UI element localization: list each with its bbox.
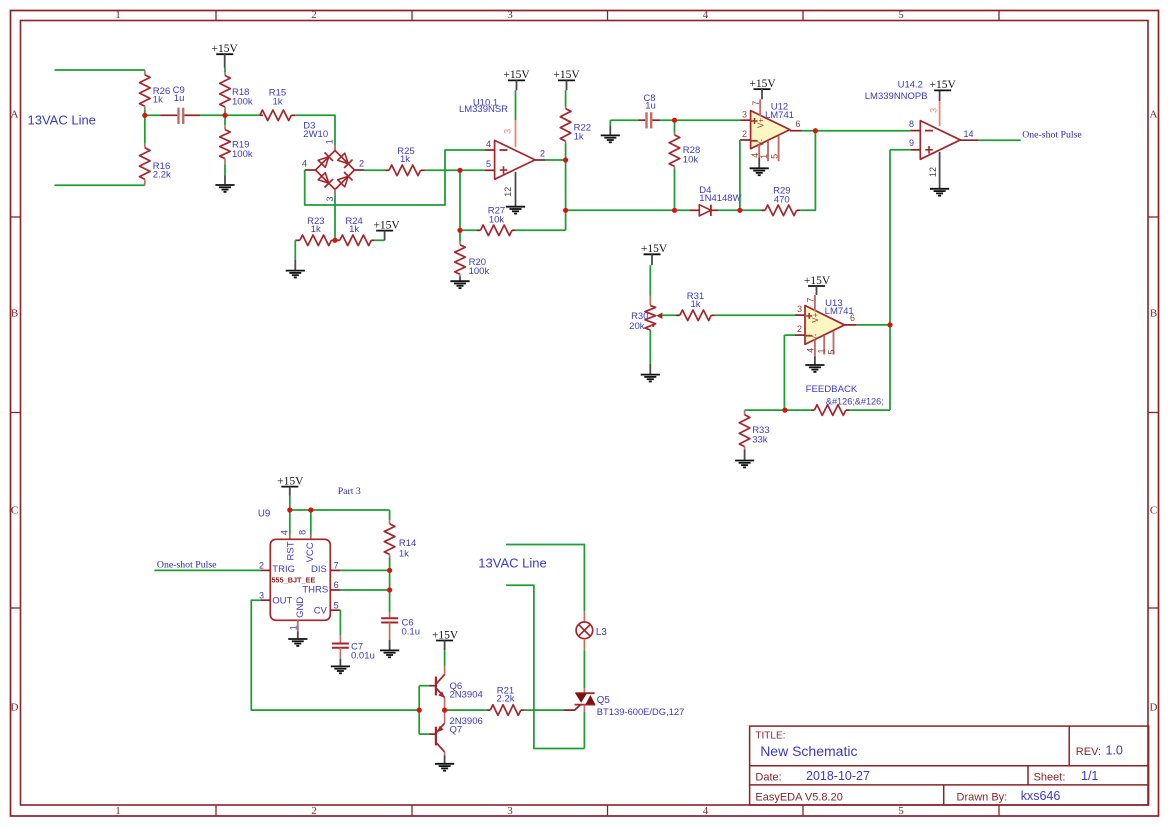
ground (R20): [450, 280, 469, 282]
svg-text:2: 2: [742, 129, 747, 139]
U9 pin 3 OUT: [261, 599, 271, 601]
wire: [340, 569, 389, 571]
svg-text:R30: R30: [631, 311, 648, 322]
U14.2 output pin 14: [960, 139, 979, 141]
U12 pin 4: [758, 145, 760, 158]
resistor R33: [744, 410, 746, 415]
title block: [750, 726, 1149, 805]
svg-text:100k: 100k: [232, 149, 253, 160]
svg-text:U9: U9: [258, 509, 270, 520]
U13 output pin 6: [845, 324, 857, 326]
svg-text:Date:: Date:: [755, 772, 781, 784]
U13 pin 4: [814, 340, 816, 357]
svg-text:1: 1: [115, 9, 121, 21]
svg-text:2: 2: [797, 324, 802, 334]
bridge pin 3: [334, 190, 336, 196]
U9 pin 1 GND: [297, 620, 299, 631]
resistor R15: [260, 114, 263, 116]
ground (U12 pin4): [750, 167, 769, 169]
ground (Q7): [435, 763, 454, 765]
wire (D4 row): [566, 209, 690, 211]
wire: [55, 184, 145, 186]
wire (pin4): [289, 510, 291, 535]
svg-text:V-: V-: [757, 139, 766, 147]
wire (bridge pin4 loop to U10 pin4): [305, 150, 485, 205]
wire: [55, 69, 145, 71]
ground (R19): [215, 184, 234, 186]
svg-text:+15V: +15V: [930, 79, 957, 91]
svg-text:One-shot Pulse: One-shot Pulse: [157, 559, 217, 570]
svg-text:1u: 1u: [174, 93, 185, 104]
svg-text:4: 4: [302, 158, 307, 168]
svg-text:13VAC Line: 13VAC Line: [478, 555, 546, 570]
svg-text:2N3904: 2N3904: [450, 689, 483, 700]
svg-text:EasyEDA V5.8.20: EasyEDA V5.8.20: [755, 792, 842, 804]
ground (C6): [380, 649, 399, 651]
U14.2 pin 12 (GND): [939, 152, 941, 189]
svg-text:+15V: +15V: [641, 243, 668, 255]
svg-text:3: 3: [929, 108, 939, 113]
svg-text:4: 4: [703, 9, 709, 21]
ground (U10.1 pin12): [506, 206, 525, 208]
wire: [295, 115, 335, 145]
comparator U10.1 LM339NSR: [495, 140, 535, 179]
wire: [802, 130, 910, 132]
bridge pin 4: [305, 169, 316, 171]
svg-text:100k: 100k: [469, 266, 490, 277]
svg-text:0.01u: 0.01u: [351, 651, 375, 662]
wire (base vertical): [418, 686, 420, 734]
svg-text:+15V: +15V: [277, 475, 304, 487]
svg-text:1: 1: [817, 348, 827, 353]
svg-text:10k: 10k: [489, 214, 505, 225]
svg-text:5: 5: [769, 154, 779, 159]
U9 pin 7 DIS: [330, 569, 340, 571]
svg-text:33k: 33k: [752, 434, 768, 445]
resistor R21: [445, 709, 487, 711]
power flag +15V (U12): [754, 88, 771, 90]
svg-text:1k: 1k: [690, 299, 700, 310]
svg-text:4: 4: [703, 805, 709, 817]
comparator U14.2 LM339NNOPB: [910, 130, 920, 132]
svg-text:TRIG: TRIG: [272, 564, 295, 575]
svg-text:3: 3: [259, 590, 264, 600]
triac Q5 BT139-600E/DG,127: [583, 688, 585, 693]
svg-text:5: 5: [334, 600, 339, 610]
svg-text:OUT: OUT: [272, 596, 292, 607]
wire: [565, 160, 567, 230]
svg-text:Drawn By:: Drawn By:: [957, 792, 1008, 804]
svg-text:Sheet:: Sheet:: [1034, 771, 1066, 783]
svg-text:3: 3: [507, 805, 513, 817]
svg-text:+15V: +15V: [503, 69, 530, 81]
svg-text:2.2k: 2.2k: [497, 694, 515, 705]
wire: [800, 131, 815, 211]
svg-text:1: 1: [759, 154, 769, 159]
svg-text:One-shot Pulse: One-shot Pulse: [1022, 129, 1082, 140]
resistor R14: [389, 510, 391, 520]
wire: [715, 314, 795, 316]
capacitor C7: [339, 610, 341, 635]
resistor R29: [762, 209, 766, 211]
svg-text:Part 3: Part 3: [338, 486, 361, 497]
U13 pin 1 stub: [823, 336, 825, 355]
ground (U13 pin4): [805, 364, 824, 366]
wire: [718, 209, 765, 211]
svg-text:1: 1: [288, 625, 298, 630]
svg-text:7: 7: [334, 561, 339, 571]
wire: [506, 585, 584, 748]
svg-text:2.2k: 2.2k: [153, 169, 171, 180]
resistor R22: [565, 90, 567, 106]
svg-text:REV:: REV:: [1076, 746, 1101, 758]
svg-text:12: 12: [503, 187, 513, 197]
svg-text:100k: 100k: [232, 97, 253, 108]
svg-text:1k: 1k: [311, 224, 321, 235]
svg-text:LM339NNOPB: LM339NNOPB: [865, 91, 928, 102]
svg-text:2: 2: [259, 561, 264, 571]
wire: [524, 709, 563, 711]
svg-text:555_BJT_EE: 555_BJT_EE: [272, 575, 316, 584]
U12 output pin 6: [790, 130, 802, 132]
U13 pin 7 (V+): [814, 295, 816, 311]
svg-text:14: 14: [964, 129, 974, 139]
power flag +15V (R18): [216, 53, 233, 55]
wire: [662, 314, 679, 316]
wire: [583, 650, 585, 688]
svg-text:7: 7: [806, 297, 816, 302]
svg-text:1N4148W: 1N4148W: [699, 193, 741, 204]
svg-text:6: 6: [334, 580, 339, 590]
wire (base row Q7): [419, 733, 429, 735]
resistor R20: [459, 230, 461, 242]
wire: [745, 409, 785, 411]
svg-text:9: 9: [909, 138, 914, 148]
wire: [289, 496, 291, 510]
svg-text:TITLE:: TITLE:: [755, 731, 785, 742]
U10.1 pin 12 (GND): [515, 172, 517, 206]
wire: [294, 240, 296, 260]
svg-text:LM741: LM741: [765, 110, 794, 121]
svg-text:3: 3: [742, 109, 747, 119]
svg-text:kxs646: kxs646: [1021, 789, 1061, 803]
svg-text:D: D: [11, 702, 19, 714]
svg-text:A: A: [11, 109, 19, 121]
svg-text:1k: 1k: [400, 154, 410, 165]
svg-text:1k: 1k: [272, 96, 282, 107]
svg-text:3: 3: [503, 129, 513, 134]
svg-text:2018-10-27: 2018-10-27: [806, 769, 870, 783]
svg-text:3: 3: [325, 196, 335, 201]
diode D4 1N4148W: [690, 209, 699, 211]
svg-text:THRS: THRS: [302, 584, 328, 595]
svg-text:LM339NSR: LM339NSR: [459, 104, 508, 115]
svg-text:V+: V+: [811, 312, 820, 322]
svg-text:4: 4: [806, 348, 816, 353]
resistor R27: [460, 229, 478, 231]
svg-text:FEEDBACK: FEEDBACK: [806, 384, 858, 395]
resistor R31: [676, 314, 680, 316]
U12 pin 1 stub: [767, 141, 769, 161]
node junction dots: [142, 113, 147, 118]
power flag +15V (R22): [558, 79, 575, 81]
svg-text:3: 3: [507, 9, 513, 21]
svg-text:5: 5: [486, 159, 491, 169]
svg-text:B: B: [1150, 308, 1157, 320]
potentiometer R30 20k: [649, 265, 651, 296]
svg-text:1k: 1k: [153, 94, 163, 105]
U9 pin 5 CV: [330, 609, 340, 611]
svg-text:2: 2: [359, 158, 364, 168]
wire: [516, 229, 566, 231]
svg-text:B: B: [11, 308, 18, 320]
wire (bridge pin3 down): [334, 196, 336, 241]
svg-text:5: 5: [898, 9, 904, 21]
wire (U12 pin2 to D4 node): [739, 140, 741, 210]
resistor R26: [144, 70, 146, 75]
svg-text:8: 8: [298, 530, 308, 535]
svg-text:2: 2: [311, 9, 317, 21]
svg-text:U14.2: U14.2: [898, 80, 923, 91]
svg-text:2W10: 2W10: [303, 129, 328, 140]
wire (pin8): [310, 510, 312, 535]
svg-text:470: 470: [774, 194, 790, 205]
resistor R18: [224, 68, 226, 73]
svg-text:6: 6: [796, 119, 801, 129]
svg-text:6: 6: [850, 313, 855, 323]
svg-text:C: C: [11, 505, 18, 517]
svg-text:C: C: [1150, 505, 1157, 517]
ground (R30): [641, 374, 660, 376]
svg-text:4: 4: [486, 139, 491, 149]
U13 pin 5 stub: [833, 332, 835, 355]
power flag +15V (U13): [808, 285, 825, 287]
wire: [459, 170, 461, 230]
svg-text:GND: GND: [295, 597, 306, 618]
resistor R23: [295, 239, 300, 241]
wire: [506, 545, 584, 612]
svg-text:1k: 1k: [349, 224, 359, 235]
U9 pin 6 THRS: [330, 589, 340, 591]
svg-text:1k: 1k: [574, 132, 584, 143]
transistor Q7 2N3906: [444, 710, 446, 723]
op-amp U13 LM741: [795, 314, 805, 316]
svg-text:DIS: DIS: [311, 564, 327, 575]
svg-text:4: 4: [279, 530, 289, 535]
lamp L3: [583, 611, 585, 622]
wire: [374, 239, 384, 241]
resistor R25: [364, 169, 386, 171]
capacitor C6: [389, 590, 391, 612]
svg-text:0.1u: 0.1u: [402, 627, 421, 638]
svg-text:R14: R14: [399, 538, 416, 549]
svg-text:+15V: +15V: [212, 43, 239, 55]
ground (C8): [609, 120, 611, 126]
svg-text:2: 2: [311, 805, 317, 817]
ground (C7): [331, 665, 350, 667]
triac gate: [563, 705, 580, 710]
svg-text:2: 2: [540, 149, 545, 159]
wire (U13 pin2): [784, 334, 795, 336]
bridge pin 2: [355, 169, 365, 171]
U10.1 pin 3 (V+): [515, 90, 517, 120]
wire: [425, 169, 485, 171]
wire: [389, 570, 391, 590]
wire (U14 pin9 down to U13 out): [890, 149, 910, 151]
capacitor C8: [610, 119, 638, 121]
transistor Q6 2N3904: [444, 650, 446, 665]
svg-text:5: 5: [898, 805, 904, 817]
wire (OUT to transistors): [251, 600, 419, 710]
svg-text:12: 12: [928, 167, 938, 177]
svg-text:RST: RST: [285, 541, 296, 560]
U14.2 pin 3 (V+): [939, 90, 941, 101]
power flag +15V (U14.2): [934, 89, 951, 91]
power flag +15V (U9): [281, 486, 298, 488]
svg-text:13VAC Line: 13VAC Line: [28, 113, 96, 128]
ground (R23): [286, 270, 305, 272]
wire: [979, 139, 1021, 141]
svg-text:CV: CV: [314, 605, 328, 616]
svg-text:L3: L3: [596, 627, 607, 638]
svg-text:1.0: 1.0: [1106, 744, 1123, 758]
svg-text:+15V: +15V: [749, 78, 776, 90]
wire: [856, 324, 890, 326]
wire: [145, 114, 160, 116]
svg-text:&#126;&#126;: &#126;&#126;: [826, 397, 884, 407]
power flag +15V (U10.1): [508, 79, 525, 81]
svg-text:D: D: [1150, 702, 1158, 714]
wire: [784, 409, 810, 411]
svg-text:New Schematic: New Schematic: [760, 743, 857, 759]
U10.1 output pin 2: [535, 159, 546, 161]
svg-text:1: 1: [324, 139, 334, 144]
svg-text:+15V: +15V: [553, 69, 580, 81]
svg-text:7: 7: [751, 101, 761, 106]
svg-text:1k: 1k: [399, 548, 409, 559]
svg-text:5: 5: [826, 349, 836, 354]
wire (base row Q6): [419, 685, 429, 687]
svg-text:1u: 1u: [645, 101, 656, 112]
svg-text:Q7: Q7: [450, 724, 463, 735]
svg-text:+15V: +15V: [804, 275, 831, 287]
svg-text:Q5: Q5: [597, 695, 611, 706]
svg-text:BT139-600E/DG,127: BT139-600E/DG,127: [597, 706, 685, 717]
ground (R33): [735, 460, 754, 462]
svg-text:10k: 10k: [683, 154, 699, 165]
capacitor C9: [160, 114, 177, 116]
resistor R28: [674, 120, 676, 133]
svg-text:A: A: [1150, 109, 1158, 121]
U12 pin 7 (V+): [759, 99, 761, 116]
svg-text:8: 8: [909, 119, 914, 129]
svg-text:1/1: 1/1: [1081, 769, 1098, 783]
resistor R24: [335, 239, 340, 241]
wire: [546, 159, 566, 161]
op-amp U12 LM741: [740, 119, 750, 121]
ground (U9 GND): [288, 638, 307, 640]
svg-text:3: 3: [797, 304, 802, 314]
resistor R16: [144, 115, 146, 144]
svg-text:VCC: VCC: [305, 542, 316, 562]
svg-text:+15V: +15V: [432, 629, 459, 641]
wire: [340, 589, 389, 591]
svg-text:+15V: +15V: [373, 219, 400, 231]
power flag +15V (R30): [644, 253, 661, 255]
svg-text:1: 1: [115, 805, 121, 817]
svg-text:20k: 20k: [629, 321, 645, 332]
power flag +15V (Q6): [436, 640, 453, 642]
resistor R19: [224, 115, 226, 125]
ground (U14.2 pin12): [930, 188, 949, 190]
U12 pin 5 stub: [778, 136, 780, 161]
wire: [200, 114, 260, 116]
wire: [660, 119, 740, 121]
wire (TRIG): [154, 569, 260, 571]
power flag +15V (R24): [376, 230, 393, 232]
